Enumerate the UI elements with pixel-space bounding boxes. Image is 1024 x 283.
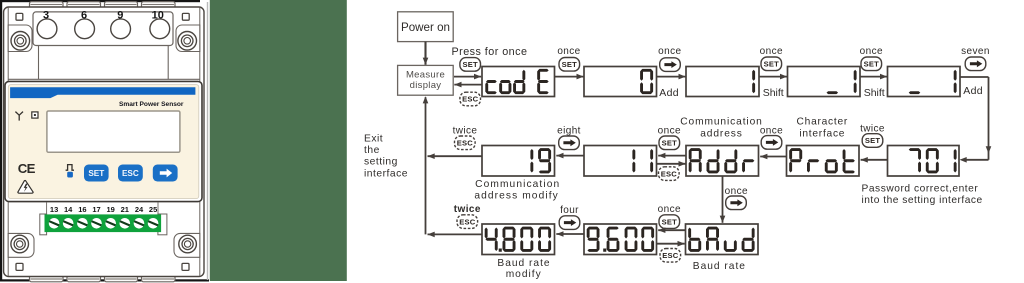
button ESC r3b	[660, 249, 681, 263]
terminal numbers bottom	[50, 205, 157, 214]
antenna icon	[15, 112, 23, 121]
svg-text:SET: SET	[463, 60, 479, 69]
button ARROW r2a	[559, 136, 580, 150]
svg-text:SET: SET	[562, 60, 578, 69]
svg-text:SET: SET	[764, 60, 780, 69]
svg-text:seven: seven	[961, 46, 990, 57]
meter top mounting tabs	[30, 2, 176, 9]
svg-text:address: address	[700, 128, 743, 139]
svg-text:modify: modify	[506, 269, 542, 280]
button SET r1b	[559, 58, 580, 72]
wire code to measure	[454, 82, 481, 88]
svg-text:Communication: Communication	[475, 179, 560, 190]
button ESC r2a	[455, 136, 476, 150]
svg-text:four: four	[560, 205, 579, 216]
svg-text:19: 19	[107, 205, 115, 214]
front panel (ivory)	[8, 85, 199, 199]
button ESC r3a	[457, 215, 478, 229]
svg-text:Smart Power Sensor: Smart Power Sensor	[119, 101, 184, 108]
recessed section lines	[8, 46, 200, 80]
meter case outline	[4, 7, 204, 277]
svg-text:Exit: Exit	[364, 134, 383, 145]
display box bAud	[686, 224, 759, 255]
top screw boss left	[8, 25, 32, 52]
svg-text:Add: Add	[963, 85, 983, 97]
svg-text:17: 17	[92, 205, 100, 214]
svg-text:once: once	[860, 46, 883, 57]
top corner square right	[182, 13, 189, 20]
display box baud 4800	[482, 224, 555, 255]
svg-text:Password correct,enter: Password correct,enter	[862, 183, 979, 194]
svg-text:Measure: Measure	[406, 69, 445, 80]
svg-text:Press for once: Press for once	[452, 46, 528, 58]
svg-text:into the setting interface: into the setting interface	[862, 195, 983, 206]
svg-text:10: 10	[152, 10, 164, 22]
button SET r1c	[761, 57, 782, 71]
display box digit 1	[686, 67, 759, 97]
display box Prot	[787, 146, 860, 177]
top screw right	[178, 32, 197, 51]
button arrow	[153, 165, 178, 182]
terminal plate	[33, 12, 173, 46]
svg-text:ESC: ESC	[457, 139, 474, 148]
wire 701 to prot	[861, 157, 888, 163]
svg-text:SET: SET	[662, 217, 678, 226]
terminal holes 3 6 9 10	[37, 19, 170, 39]
box Measure display	[398, 65, 454, 95]
svg-text:once: once	[658, 46, 681, 57]
svg-text:SET: SET	[88, 169, 104, 178]
svg-text:address modify: address modify	[474, 191, 558, 202]
wire exit spine	[423, 96, 429, 234]
button ESC	[118, 165, 143, 182]
bottom screw boss right	[174, 233, 200, 257]
wire password to 701	[960, 77, 992, 163]
wire power-on to measure	[423, 42, 429, 65]
button ESC r1a	[460, 92, 481, 106]
display box cursor shift 1	[788, 67, 861, 97]
terminal recess lines	[47, 202, 158, 214]
svg-text:16: 16	[78, 205, 86, 214]
svg-text:Baud rate: Baud rate	[693, 261, 746, 272]
svg-text:the: the	[364, 145, 380, 156]
svg-text:interface: interface	[364, 168, 408, 179]
wire addr to baud	[720, 176, 726, 223]
pulse blue square	[67, 172, 73, 178]
button ARROW r1b	[965, 57, 986, 71]
svg-text:Character: Character	[797, 117, 848, 128]
wire addr to 11 set	[658, 153, 686, 159]
svg-text:ESC: ESC	[661, 169, 678, 178]
display box comm addr 11	[584, 146, 657, 177]
display box cursor shift 2	[888, 67, 961, 97]
svg-text:twice: twice	[860, 124, 885, 135]
display box codE	[482, 67, 555, 97]
warning triangle	[18, 181, 33, 194]
pulse icon	[66, 165, 74, 171]
svg-text:Shift: Shift	[763, 87, 784, 99]
button ESC r2b	[659, 167, 680, 181]
display box password 701	[888, 146, 960, 177]
svg-text:6: 6	[81, 10, 87, 22]
wire 11 to addr esc	[657, 161, 686, 167]
svg-text:14: 14	[64, 205, 73, 214]
bottom corner square left	[16, 263, 23, 270]
wire 9600 to baud	[657, 241, 685, 247]
terminal side plate right	[158, 214, 167, 235]
bottom screw left	[11, 235, 29, 253]
svg-text:Communication: Communication	[680, 117, 762, 128]
display box Addr	[686, 146, 759, 177]
wire baud to 9600	[658, 227, 685, 233]
bottom screw right	[179, 235, 197, 253]
front panel frame	[5, 81, 202, 201]
box Power on	[398, 12, 454, 42]
wire 11 to 19	[556, 153, 584, 159]
svg-text:ESC: ESC	[462, 95, 479, 104]
button ARROW mid	[726, 196, 747, 210]
svg-text:setting: setting	[364, 157, 398, 168]
svg-text:once: once	[760, 46, 783, 57]
svg-text:Power on: Power on	[401, 21, 450, 34]
button SET r2b	[862, 134, 883, 148]
meter bottom mounting tabs	[30, 275, 176, 282]
wire shift1 to shift2	[860, 74, 887, 80]
svg-text:9: 9	[117, 10, 123, 22]
display box comm addr 19	[482, 146, 555, 177]
svg-text:Add: Add	[659, 87, 679, 99]
display box digit 0	[584, 67, 657, 97]
button ARROW r3a	[559, 216, 580, 230]
wire 9600 to 4800	[556, 231, 584, 237]
svg-text:twice: twice	[454, 204, 481, 215]
svg-text:ESC: ESC	[122, 169, 139, 178]
svg-text:interface: interface	[799, 128, 845, 139]
button SET r1a	[460, 58, 481, 72]
square indicator icon	[32, 112, 38, 118]
svg-text:ESC: ESC	[459, 217, 476, 226]
button SET	[84, 165, 109, 182]
button ARROW r2b	[761, 136, 782, 150]
svg-text:once: once	[658, 204, 681, 215]
terminal numbers top	[43, 10, 164, 22]
svg-text:SET: SET	[662, 139, 678, 148]
svg-text:SET: SET	[864, 60, 880, 69]
svg-text:twice: twice	[453, 126, 478, 137]
display box baud 9600	[584, 224, 657, 255]
button SET r1d	[861, 57, 882, 71]
bottom screw boss left	[8, 233, 34, 257]
button ARROW r1a	[660, 58, 681, 72]
svg-text:once: once	[658, 126, 681, 137]
wire 4800 exit	[428, 232, 483, 238]
wire prot to addr	[760, 154, 786, 160]
svg-text:Shift: Shift	[864, 87, 885, 99]
wire 0 to 1	[657, 74, 686, 80]
svg-text:Baud rate: Baud rate	[497, 258, 550, 269]
svg-text:21: 21	[121, 205, 129, 214]
svg-text:ESC: ESC	[662, 251, 679, 260]
case inner side lines	[8, 8, 200, 277]
blue header band	[10, 87, 195, 98]
svg-text:display: display	[410, 80, 442, 91]
button SET r3a	[659, 215, 680, 229]
LCD display	[47, 111, 180, 152]
green background band	[210, 0, 347, 281]
svg-text:3: 3	[43, 10, 49, 22]
top corner square left	[16, 13, 23, 20]
wire measure to code	[454, 74, 481, 80]
terminal side plate left	[40, 214, 47, 235]
svg-text:eight: eight	[557, 126, 581, 137]
svg-text:SET: SET	[865, 136, 881, 145]
wire 19 exit	[428, 153, 483, 159]
green terminal block	[45, 214, 162, 232]
wire 1 to shift1	[759, 74, 787, 80]
svg-text:25: 25	[149, 205, 157, 214]
top screw boss right	[176, 25, 200, 52]
svg-text:once: once	[557, 46, 580, 57]
button SET r2a	[659, 136, 680, 150]
bottom corner square right	[182, 263, 189, 270]
svg-text:CE: CE	[18, 161, 36, 176]
wire code to 0	[555, 74, 584, 80]
top screw left	[11, 32, 30, 51]
svg-text:24: 24	[135, 205, 144, 214]
svg-text:13: 13	[50, 205, 58, 214]
device photo frame	[0, 0, 209, 282]
